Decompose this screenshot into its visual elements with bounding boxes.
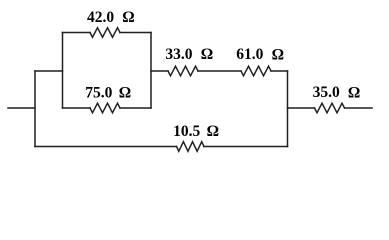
wire: left terminal lead — [8, 107, 35, 109]
svg-text:Ω: Ω — [119, 84, 131, 101]
resistor R2 75.0 ohm — [90, 103, 120, 113]
resistor R1 42.0 ohm — [90, 28, 120, 38]
svg-text:Ω: Ω — [207, 123, 219, 140]
wire: right vertical bus — [287, 71, 289, 147]
wire: bottom rail right segment — [120, 107, 151, 109]
wire: box output to R3 — [151, 70, 168, 72]
wire: bottom branch left segment — [35, 146, 177, 148]
wire: between R3 and R4 — [198, 70, 241, 72]
svg-text:42.0: 42.0 — [87, 9, 114, 26]
wire: left vertical bus — [34, 71, 36, 147]
resistor R3 33.0 ohm — [168, 66, 198, 76]
wire: top rail left segment — [63, 32, 91, 34]
wire: bottom branch right segment — [204, 146, 288, 148]
wire: right bus to R5 — [288, 107, 315, 109]
svg-text:35.0: 35.0 — [313, 84, 340, 101]
resistor R4 61.0 ohm — [241, 66, 271, 76]
svg-text:10.5: 10.5 — [173, 123, 200, 140]
resistor R6 10.5 ohm — [177, 142, 205, 152]
svg-text:33.0: 33.0 — [165, 46, 192, 63]
wire: right terminal lead — [345, 107, 373, 109]
wire: R4 to right bus — [271, 70, 288, 72]
wire: parallel-box left vertical — [62, 33, 64, 109]
wire: bottom rail left segment — [63, 107, 91, 109]
svg-text:75.0: 75.0 — [85, 84, 112, 101]
svg-text:Ω: Ω — [201, 46, 213, 63]
svg-text:Ω: Ω — [348, 84, 360, 101]
svg-text:61.0: 61.0 — [236, 46, 263, 63]
wire: feed from left bus to parallel pair — [35, 70, 63, 72]
resistor R5 35.0 ohm — [315, 103, 345, 113]
wire: top rail right segment — [120, 32, 151, 34]
svg-text:Ω: Ω — [272, 46, 284, 63]
wire: parallel-box right vertical — [150, 33, 152, 109]
svg-text:Ω: Ω — [122, 9, 134, 26]
